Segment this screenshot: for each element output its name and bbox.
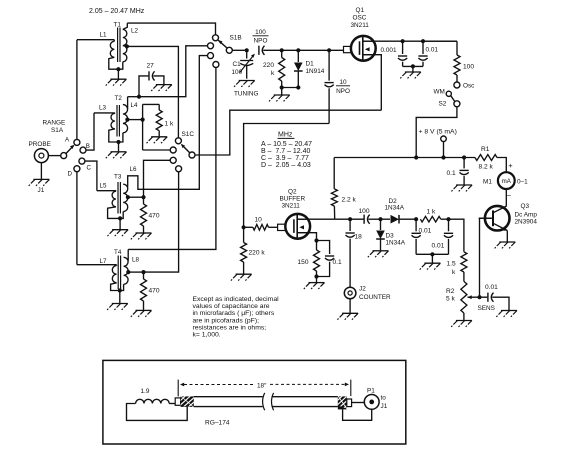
- wire node X to L4 top: [128, 96, 139, 98]
- inductor L6 winding: [123, 184, 128, 211]
- terminal +8V: [441, 136, 447, 142]
- svg-text:J1: J1: [381, 403, 388, 410]
- capacitor 0.001: [402, 41, 404, 54]
- ground under sens cap: [501, 310, 517, 312]
- wire filter to 1.5k: [449, 219, 464, 252]
- wire bypass caps common: [403, 65, 423, 67]
- transformer T1 core: [117, 28, 119, 63]
- transistor Q2 3N211 MOSFET: [285, 214, 310, 239]
- wire S1A-B to L3: [86, 113, 94, 150]
- node D3 top: [378, 217, 382, 221]
- svg-text:100: 100: [359, 208, 370, 215]
- wire J1 to S1A pole: [48, 155, 60, 157]
- ground under bypass caps: [405, 71, 421, 73]
- svg-text:P1: P1: [367, 388, 375, 395]
- resistor 470 T4 tap: [143, 272, 145, 279]
- node D1 top: [296, 48, 300, 52]
- wire 0.01 commons: [416, 253, 448, 255]
- svg-text:to: to: [381, 395, 387, 402]
- wire T1 tap to S1C-A: [127, 46, 178, 137]
- wire S1A-D to L7: [76, 172, 78, 265]
- diode D1 1N914: [297, 50, 299, 62]
- ground under T1: [110, 78, 126, 80]
- probe assembly box: [103, 360, 406, 444]
- svg-text:L4: L4: [131, 102, 139, 109]
- switch S2 contact WM: [446, 91, 451, 96]
- svg-text:18: 18: [355, 234, 363, 241]
- node T3 bottom junction: [118, 216, 122, 220]
- svg-text:k= 1,000.: k= 1,000.: [193, 332, 221, 339]
- inductor L5 winding: [97, 190, 116, 192]
- svg-text:T1: T1: [114, 22, 122, 29]
- wire S1A-A to L1: [76, 40, 78, 140]
- resistor 220 k: [281, 50, 283, 57]
- node 0.001 top: [401, 39, 405, 43]
- svg-text:in microfarads ( μF); others: in microfarads ( μF); others: [193, 310, 275, 317]
- dimension 18 inch: [177, 380, 179, 397]
- wire Q1 drain: [363, 40, 457, 42]
- switch S1B contact A: [213, 35, 219, 41]
- node Q2 source bottom: [314, 274, 318, 278]
- resistor R1 8.2k: [475, 155, 497, 161]
- svg-text:0–1: 0–1: [517, 179, 528, 186]
- probe pickup coil: [136, 399, 170, 403]
- switch S1C arm: [182, 145, 190, 153]
- wire Q2 drain: [297, 218, 335, 220]
- switch S2 contact Osc: [454, 82, 460, 88]
- resistor 10 ohm: [244, 226, 253, 228]
- svg-text:1 k: 1 k: [165, 121, 174, 128]
- capacitor 0.01 sens: [487, 293, 489, 302]
- switch S1B contact D: [213, 62, 219, 68]
- svg-text:COUNTER: COUNTER: [359, 294, 391, 301]
- svg-text:S1B: S1B: [230, 35, 242, 42]
- svg-text:2.05 – 20.47 MHz: 2.05 – 20.47 MHz: [89, 8, 145, 15]
- wire T4 tap to S1C-D: [144, 172, 179, 272]
- svg-text:100: 100: [232, 69, 243, 76]
- svg-text:A – 10.5 – 20.47: A – 10.5 – 20.47: [261, 141, 312, 148]
- switch S1C pole: [189, 152, 195, 158]
- svg-text:PROBE: PROBE: [29, 141, 51, 148]
- svg-text:Q1: Q1: [356, 7, 365, 14]
- svg-text:RG–174: RG–174: [205, 420, 230, 427]
- svg-text:L7: L7: [100, 258, 108, 265]
- svg-text:D3: D3: [386, 233, 395, 240]
- capacitor 100 coupling: [335, 218, 364, 220]
- ground under T4: [112, 303, 128, 305]
- node T1 tap: [125, 44, 129, 48]
- svg-text:0.001: 0.001: [381, 47, 397, 54]
- svg-text:values of capacitance are: values of capacitance are: [193, 303, 270, 310]
- switch S1B arm: [218, 40, 227, 48]
- svg-text:L2: L2: [131, 28, 139, 35]
- capacitor 0.1 source: [317, 241, 330, 255]
- wire S2 to rail: [416, 107, 457, 158]
- switch S1B contact B: [208, 43, 214, 49]
- svg-text:Q3: Q3: [521, 203, 530, 210]
- wire cap to Q1 gate: [263, 49, 343, 51]
- svg-text:D1: D1: [306, 61, 315, 68]
- node tuning junction: [245, 48, 249, 52]
- right coax connector: [338, 396, 347, 409]
- capacitor 0.1 rail: [463, 158, 465, 169]
- wire S1C-C to T3 tap: [144, 160, 171, 197]
- svg-text:Dc Amp: Dc Amp: [515, 212, 538, 219]
- svg-text:J2: J2: [359, 286, 366, 293]
- node 0.01b top: [446, 217, 450, 221]
- svg-text:BUFFER: BUFFER: [280, 196, 306, 203]
- diode D3 1N34A: [380, 219, 382, 230]
- svg-text:T4: T4: [114, 249, 122, 256]
- svg-text:0.1: 0.1: [447, 170, 456, 177]
- resistor 2.2k: [333, 158, 335, 189]
- node Q2 source junction: [314, 238, 318, 242]
- node T4 bottom junction: [118, 288, 122, 292]
- wire Q1 source: [363, 55, 382, 110]
- switch S1A contact A: [74, 139, 80, 145]
- wire S1C-B: [143, 149, 171, 151]
- svg-text:S2: S2: [439, 101, 447, 108]
- coax cable run: [194, 396, 263, 398]
- capacitor 10 NPO: [328, 50, 330, 80]
- svg-text:10: 10: [339, 79, 347, 86]
- wire 220k D1 bottoms: [280, 85, 284, 89]
- svg-text:mA: mA: [502, 178, 512, 185]
- ground under 150: [309, 282, 325, 284]
- transistor Q1 gate box: [344, 46, 352, 52]
- svg-text:100: 100: [255, 29, 266, 36]
- svg-text:are in picofarads (pF);: are in picofarads (pF);: [193, 317, 260, 324]
- capacitor 18: [349, 219, 351, 231]
- ground under 0.1 rail: [456, 184, 472, 186]
- wire L8 top to S1B-D: [127, 249, 129, 260]
- svg-text:OSC: OSC: [353, 15, 367, 22]
- svg-text:SENS: SENS: [478, 305, 495, 312]
- transistor Q3 2N3904: [485, 206, 510, 231]
- svg-text:–: –: [507, 192, 511, 199]
- capacitor 100 NPO: [258, 46, 260, 55]
- inductor L8 winding: [124, 257, 129, 284]
- switch S1A contact D: [74, 166, 80, 172]
- node 220k top: [280, 48, 284, 52]
- svg-text:D: D: [68, 170, 73, 177]
- ground under T3: [112, 229, 128, 231]
- svg-text:100: 100: [463, 64, 474, 71]
- wire meter to Q3 collector: [505, 189, 507, 207]
- ground under 220k buffer: [236, 273, 252, 275]
- transformer T4 core: [117, 256, 119, 290]
- svg-text:S1C: S1C: [182, 131, 195, 138]
- node T1 bottom junction: [116, 67, 120, 71]
- switch S1B contact C: [208, 53, 214, 59]
- resistor 1.5k: [461, 252, 467, 272]
- ground under T2: [111, 151, 127, 153]
- svg-text:L1: L1: [100, 32, 108, 39]
- inductor L3 winding: [94, 112, 115, 114]
- svg-text:1N914: 1N914: [306, 68, 325, 75]
- wire 10NPO to buffer bus: [244, 124, 330, 228]
- svg-text:L3: L3: [99, 105, 107, 112]
- svg-text:T3: T3: [114, 174, 122, 181]
- svg-text:B: B: [86, 143, 90, 150]
- ground under 220k: [274, 94, 290, 96]
- switch S1A contact C: [79, 158, 85, 164]
- node T2 bottom junction: [116, 140, 120, 144]
- transformer T2 core: [116, 105, 118, 137]
- wire 27pF right to ground: [153, 76, 164, 84]
- node buffer bus junction: [242, 225, 246, 229]
- wire L6 top to S1B-C: [128, 56, 208, 190]
- svg-text:0.01: 0.01: [485, 284, 498, 291]
- meter M1 mA: [498, 172, 515, 189]
- svg-text:27: 27: [147, 63, 155, 70]
- switch S1C contact B: [170, 147, 176, 153]
- svg-text:0.1: 0.1: [333, 259, 342, 266]
- node 10NPO top: [327, 48, 331, 52]
- ground under D3: [373, 250, 389, 252]
- svg-text:1.9: 1.9: [141, 388, 150, 395]
- svg-text:NPO: NPO: [254, 38, 268, 45]
- inductor L2 winding: [123, 23, 128, 29]
- switch S1A contact B: [80, 147, 86, 153]
- svg-text:220 k: 220 k: [249, 250, 266, 257]
- svg-text:150: 150: [298, 259, 309, 266]
- svg-text:NPO: NPO: [336, 88, 350, 95]
- shield return wire: [343, 409, 372, 420]
- ground under 1k: [151, 136, 167, 138]
- svg-text:+: +: [508, 161, 513, 170]
- node T3 tap: [126, 195, 130, 199]
- node 0.01a top: [414, 217, 418, 221]
- svg-text:TUNING: TUNING: [234, 91, 259, 98]
- switch S1B pole: [226, 47, 232, 53]
- ground under R2: [456, 320, 472, 322]
- svg-text:8.2 k: 8.2 k: [479, 164, 494, 171]
- switch S2 pole: [454, 101, 460, 107]
- svg-text:3N211: 3N211: [282, 203, 301, 210]
- svg-text:2.2 k: 2.2 k: [342, 197, 357, 204]
- wiper R2: [468, 295, 472, 299]
- wire wiper to Q3 base: [479, 218, 481, 297]
- svg-text:10: 10: [255, 217, 263, 224]
- wire tap bus T2: [142, 104, 144, 150]
- ground under C1: [239, 80, 255, 82]
- diode D2 1N34A: [381, 218, 391, 220]
- svg-text:220: 220: [263, 62, 274, 69]
- svg-text:C – 3.9 – 7.77: C – 3.9 – 7.77: [261, 155, 309, 162]
- transformer T3 core: [117, 182, 119, 214]
- svg-text:0.01: 0.01: [432, 243, 445, 250]
- node X junction 27pF: [137, 95, 141, 99]
- wire S1B pole to tuning node: [232, 49, 246, 51]
- svg-text:5 k: 5 k: [446, 296, 455, 303]
- resistor 1k filter: [420, 216, 440, 222]
- transistor Q1 3N211 MOSFET: [351, 36, 376, 61]
- svg-text:resistances are in ohms;: resistances are in ohms;: [193, 324, 267, 331]
- inductor L7 winding: [77, 264, 117, 266]
- svg-text:RANGE: RANGE: [43, 120, 66, 127]
- resistor 150: [316, 241, 318, 251]
- svg-text:0.01: 0.01: [419, 228, 432, 235]
- connector P1 phono plug: [364, 395, 379, 410]
- node T4 tap: [126, 270, 130, 274]
- svg-text:1 k: 1 k: [427, 209, 436, 216]
- resistor 1k T2 tap: [143, 103, 160, 105]
- svg-text:MHz: MHz: [278, 132, 293, 139]
- svg-text:470: 470: [149, 288, 160, 295]
- svg-text:R1: R1: [481, 146, 490, 153]
- svg-text:L6: L6: [130, 166, 138, 173]
- svg-text:T2: T2: [115, 95, 123, 102]
- ground under 0.01s: [424, 262, 440, 264]
- switch S1C contact A: [175, 138, 181, 144]
- wire 27pF left to node X: [139, 76, 148, 97]
- node 18pF top: [348, 217, 352, 221]
- ground for 27pF: [156, 84, 172, 86]
- resistor 220k buffer: [243, 227, 245, 242]
- connector J2 counter jack: [344, 287, 356, 299]
- svg-text:R2: R2: [446, 288, 455, 295]
- wire node X to S1B-B: [139, 46, 208, 97]
- wire S1A-C to L5: [85, 161, 97, 191]
- svg-text:D – 2.05 – 4.03: D – 2.05 – 4.03: [261, 162, 311, 169]
- svg-text:18″: 18″: [257, 383, 267, 390]
- svg-text:+ 8 V (5 mA): + 8 V (5 mA): [419, 129, 457, 136]
- switch S1C contact D: [176, 166, 182, 172]
- left coax connector: [175, 398, 180, 405]
- potentiometer R2 5k: [461, 281, 467, 313]
- svg-text:C1: C1: [233, 61, 242, 68]
- inductor L4 winding: [123, 105, 128, 133]
- wire Q2 source: [297, 233, 316, 241]
- svg-text:2N3904: 2N3904: [515, 219, 538, 226]
- capacitor 0.01b: [448, 219, 450, 231]
- svg-text:1N34A: 1N34A: [385, 205, 405, 212]
- svg-text:C: C: [87, 165, 92, 172]
- capacitor 0.01a: [415, 219, 417, 231]
- resistor 100 osc: [423, 40, 457, 42]
- wire T1 top to S1B-A: [127, 23, 215, 35]
- switch S1A arm: [66, 146, 74, 154]
- capacitor 27: [148, 71, 150, 80]
- svg-text:L8: L8: [132, 257, 140, 264]
- svg-text:B – 7.7 – 12.40: B – 7.7 – 12.40: [261, 148, 311, 155]
- ground under 470 T3: [136, 232, 152, 234]
- transistor Q2 gate box: [278, 224, 286, 230]
- power rail: [334, 157, 475, 159]
- svg-text:3N211: 3N211: [351, 22, 370, 29]
- connector J1 probe jack: [34, 149, 48, 163]
- wire +8V to rail: [443, 142, 445, 158]
- ground under 470 T4: [136, 309, 152, 311]
- wire connector to P1: [352, 402, 365, 404]
- svg-text:0.01: 0.01: [426, 47, 439, 54]
- svg-text:L5: L5: [100, 183, 108, 190]
- resistor 470 T3 tap: [143, 197, 145, 204]
- wire S1C pole to Q1 source line: [195, 110, 381, 155]
- variable capacitor C1 TUNING: [240, 60, 253, 62]
- svg-text:470: 470: [149, 213, 160, 220]
- svg-text:Osc: Osc: [463, 83, 475, 90]
- node 0.01 top: [421, 39, 425, 43]
- switch S2 arm: [451, 96, 455, 102]
- svg-text:1.5: 1.5: [447, 261, 456, 268]
- switch S1C contact C: [170, 157, 176, 163]
- switch S1A pole: [61, 153, 67, 159]
- svg-text:M1: M1: [483, 179, 492, 186]
- svg-text:Q2: Q2: [288, 189, 297, 196]
- capacitor 0.01 at drain: [422, 41, 424, 54]
- svg-text:S1A: S1A: [51, 127, 64, 134]
- inductor L1 winding: [77, 39, 114, 41]
- node T2 tap: [125, 118, 129, 122]
- svg-text:WM: WM: [434, 89, 445, 96]
- svg-text:J1: J1: [38, 187, 45, 194]
- ground under J1: [40, 163, 42, 179]
- svg-text:1N34A: 1N34A: [386, 240, 406, 247]
- svg-text:Except as indicated, decimal: Except as indicated, decimal: [193, 296, 280, 303]
- wire Q3 emitter to ground: [506, 231, 508, 242]
- wire J2 to ground: [349, 299, 351, 313]
